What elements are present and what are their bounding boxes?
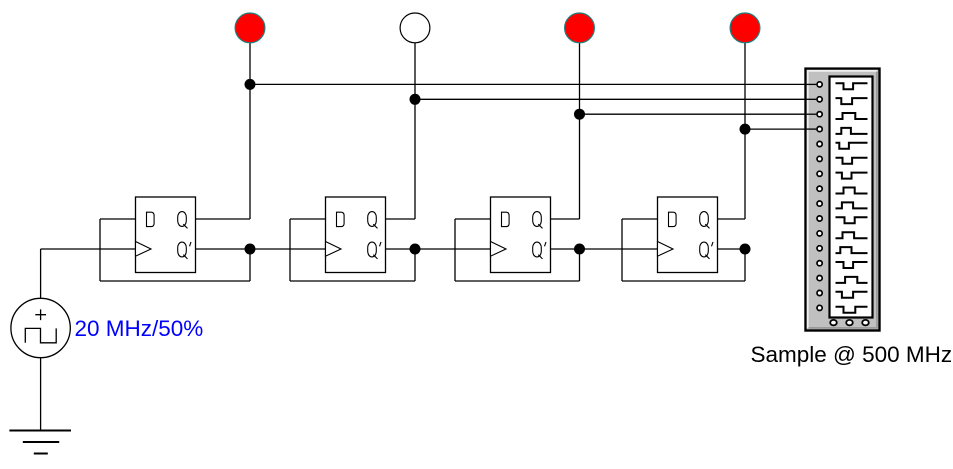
- wire U3 feedback bottom: [455, 280, 580, 282]
- junction bus 2 node: [410, 94, 421, 105]
- junction U3 Q' node: [574, 244, 585, 255]
- svg-text:Sample @ 500 MHz: Sample @ 500 MHz: [751, 342, 953, 367]
- pin label U1 D: [147, 212, 155, 226]
- pin label U2 Q: [368, 212, 377, 227]
- wire lamp L2 vertical: [414, 43, 416, 219]
- analyzer bottom pin 1: [830, 320, 837, 325]
- ground GND line 1: [9, 430, 71, 432]
- analyzer bottom pin 3: [862, 320, 869, 325]
- wire U2 feedback right vertical: [414, 249, 416, 281]
- wire U1 feedback right vertical: [249, 249, 251, 281]
- wire U4 Q' output: [718, 248, 746, 250]
- wire bus 2 to analyzer: [415, 98, 817, 100]
- logic analyzer bevel shadow: [809, 72, 877, 328]
- analyzer pin 14: [818, 275, 820, 277]
- wire bus 1 stub inside analyzer: [806, 83, 817, 85]
- pin label U2 D: [337, 212, 345, 226]
- pulse source V1 plus sign: [35, 309, 46, 320]
- wire U4 feedback left vertical: [621, 219, 623, 281]
- logic analyzer screen panel: [830, 77, 873, 318]
- analyzer waveform trace 2: [836, 98, 868, 104]
- analyzer pin 16: [818, 305, 820, 307]
- analyzer pin 7: [818, 171, 820, 173]
- analyzer pin 1: [818, 81, 820, 83]
- wire U4 feedback right vertical: [744, 249, 746, 281]
- flip-flop U4 clock triangle: [658, 242, 674, 257]
- wire U2 feedback bottom: [290, 280, 415, 282]
- analyzer pin 11: [818, 230, 820, 232]
- wire U1 D input: [100, 218, 136, 220]
- lamp L3: [565, 13, 595, 43]
- svg-text:20 MHz/50%: 20 MHz/50%: [75, 316, 204, 341]
- wire U2 Q' to U3 clock: [415, 248, 491, 250]
- wire bus 1 to analyzer: [250, 83, 817, 85]
- analyzer waveform trace 1: [836, 83, 868, 89]
- wire U3 Q' to U4 clock: [580, 248, 658, 250]
- pin label U2 Q': [368, 242, 377, 257]
- analyzer waveform trace 6: [836, 158, 868, 164]
- wire lamp L4 vertical: [744, 43, 746, 219]
- wire U1 feedback bottom: [100, 280, 250, 282]
- pin label U4 Q': [700, 242, 709, 257]
- analyzer waveform trace 10: [836, 217, 868, 223]
- analyzer waveform trace 15: [836, 292, 868, 298]
- lamp L1: [235, 13, 265, 43]
- analyzer waveform trace 3: [836, 113, 868, 119]
- analyzer pin 3: [818, 111, 820, 113]
- wire U1 feedback left vertical: [99, 219, 101, 281]
- wire U4 Q output: [718, 218, 746, 220]
- analyzer waveform trace 4: [836, 128, 868, 134]
- ground GND line 3: [34, 453, 48, 455]
- flip-flop U3 clock triangle: [491, 242, 507, 257]
- analyzer pin 5: [818, 141, 820, 143]
- analyzer pin 2: [818, 96, 820, 98]
- wire U1 Q' to U2 clock: [250, 248, 326, 250]
- pin label U1 Q: [178, 212, 187, 227]
- analyzer waveform trace 12: [836, 247, 868, 253]
- lamp L4: [730, 13, 760, 43]
- logic analyzer XLA1 outer body: [806, 69, 880, 331]
- analyzer waveform trace 16: [836, 307, 868, 313]
- junction U4 Q' node: [740, 244, 751, 255]
- logic analyzer bevel highlight: [808, 71, 878, 329]
- wire U2 D input: [290, 218, 326, 220]
- analyzer pin 8: [818, 186, 820, 188]
- junction bus 4 node: [740, 124, 751, 135]
- junction bus 3 node: [574, 109, 585, 120]
- pulse source V1 waveform glyph: [25, 328, 56, 342]
- wire clock trunk to U1 clock: [41, 248, 136, 250]
- wire U1 Q output: [196, 218, 251, 220]
- wire U3 Q' output: [551, 248, 580, 250]
- pin label U3 D: [502, 212, 510, 226]
- analyzer waveform trace 5: [836, 143, 868, 149]
- junction U1 Q' node: [245, 244, 256, 255]
- wire bus 2 stub inside analyzer: [806, 98, 817, 100]
- flip-flop U2 body: [326, 197, 386, 273]
- wire U2 Q' output: [386, 248, 416, 250]
- flip-flop U2 clock triangle: [326, 242, 342, 257]
- wire lamp L1 vertical: [249, 43, 251, 219]
- wire clock source top lead: [40, 249, 42, 298]
- analyzer pin 10: [818, 215, 820, 217]
- analyzer waveform trace 8: [836, 188, 868, 194]
- pin label U4 Q: [700, 212, 709, 227]
- wire U3 feedback right vertical: [579, 249, 581, 281]
- analyzer waveform trace 7: [836, 173, 868, 179]
- wire U1 Q' output: [196, 248, 251, 250]
- wire lamp L3 vertical: [579, 43, 581, 219]
- flip-flop U3 body: [491, 197, 551, 273]
- pin label U4 D: [669, 212, 677, 226]
- wire U3 Q output: [551, 218, 580, 220]
- analyzer waveform trace 11: [836, 232, 868, 238]
- wire clock source bottom lead: [40, 358, 42, 431]
- pin label U3 Q: [533, 212, 542, 227]
- analyzer waveform trace 13: [836, 262, 868, 268]
- wire U4 D input: [622, 218, 658, 220]
- pin label U3 Q': [533, 242, 542, 257]
- flip-flop U4 body: [658, 197, 718, 273]
- flip-flop U1 clock triangle: [136, 242, 152, 257]
- analyzer pin 15: [818, 290, 820, 292]
- wire U2 Q output: [386, 218, 416, 220]
- ground GND line 2: [23, 441, 59, 443]
- analyzer pin 6: [818, 156, 820, 158]
- wire bus 3 stub inside analyzer: [806, 113, 817, 115]
- wire U3 D input: [455, 218, 491, 220]
- pulse source V1 body: [11, 298, 70, 357]
- wire bus 4 to analyzer: [745, 128, 817, 130]
- junction bus 1 node: [245, 79, 256, 90]
- analyzer pin 9: [818, 200, 820, 202]
- analyzer waveform trace 14: [836, 277, 868, 283]
- analyzer bottom pin 2: [846, 320, 853, 325]
- wire bus 3 to analyzer: [580, 113, 818, 115]
- analyzer pin 13: [818, 260, 820, 262]
- analyzer waveform trace 9: [836, 202, 868, 208]
- flip-flop U1 body: [136, 197, 196, 273]
- junction U2 Q' node: [410, 244, 421, 255]
- wire U2 feedback left vertical: [289, 219, 291, 281]
- analyzer pin 12: [818, 245, 820, 247]
- pin label U1 Q': [178, 242, 187, 257]
- wire bus 4 stub inside analyzer: [806, 128, 817, 130]
- wire U4 feedback bottom: [622, 280, 745, 282]
- wire U3 feedback left vertical: [454, 219, 456, 281]
- lamp L2: [400, 13, 430, 43]
- analyzer pin 4: [818, 126, 820, 128]
